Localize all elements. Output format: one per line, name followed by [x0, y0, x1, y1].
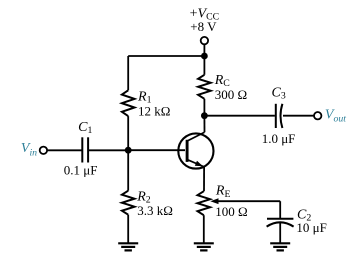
wire Vin terminal to C1 — [47, 149, 81, 151]
wire base wire — [128, 149, 185, 151]
resistor R2 — [122, 191, 135, 215]
wire collector node to C3 — [204, 115, 275, 117]
wire Vcc rail horizontal — [128, 55, 204, 57]
wire R1 top lead — [127, 56, 129, 90]
svg-text:3.3 kΩ: 3.3 kΩ — [137, 203, 173, 218]
wire C2 bottom lead — [279, 223, 281, 243]
wire emitter vertical — [203, 167, 205, 191]
terminal Vout — [314, 112, 321, 119]
wire C2 top lead — [279, 201, 281, 218]
resistor R1 — [122, 90, 135, 116]
wire RE bottom lead — [203, 215, 205, 243]
wire Vcc lead — [203, 44, 205, 56]
svg-text:10 μF: 10 μF — [296, 220, 326, 235]
ground under RE — [194, 243, 214, 250]
wire R2 bottom lead — [127, 215, 129, 243]
junction node collector — [201, 112, 208, 119]
transistor Q1 — [178, 132, 213, 168]
wire C3 to Vout terminal — [283, 115, 314, 117]
svg-text:300 Ω: 300 Ω — [215, 87, 247, 102]
wire R1 bottom lead — [127, 116, 129, 150]
wire C1 to base node — [89, 149, 129, 151]
capacitor C1 — [82, 137, 88, 162]
terminal Vin — [40, 147, 47, 154]
resistor RC — [198, 75, 211, 99]
ground under R2 — [118, 243, 138, 250]
junction node base — [125, 147, 132, 154]
svg-text:100 Ω: 100 Ω — [215, 204, 247, 219]
wire collector vertical — [203, 116, 205, 133]
wire RC bottom lead — [203, 99, 205, 116]
svg-text:+8 V: +8 V — [190, 19, 217, 34]
wire R2 top lead — [127, 150, 129, 191]
svg-text:1.0 μF: 1.0 μF — [262, 131, 296, 146]
junction node Vcc rail — [201, 53, 208, 60]
capacitor C2 — [267, 219, 294, 227]
terminal Vcc — [201, 37, 208, 44]
arrowhead bypass to RE — [210, 198, 218, 204]
resistor RE — [198, 191, 211, 215]
wire bypass horizontal to C2 — [218, 200, 281, 202]
capacitor C3 — [276, 104, 283, 128]
ground under C2 — [270, 243, 290, 250]
wire RC top lead — [203, 56, 205, 75]
svg-text:12 kΩ: 12 kΩ — [138, 103, 170, 118]
svg-text:0.1 μF: 0.1 μF — [64, 163, 98, 178]
